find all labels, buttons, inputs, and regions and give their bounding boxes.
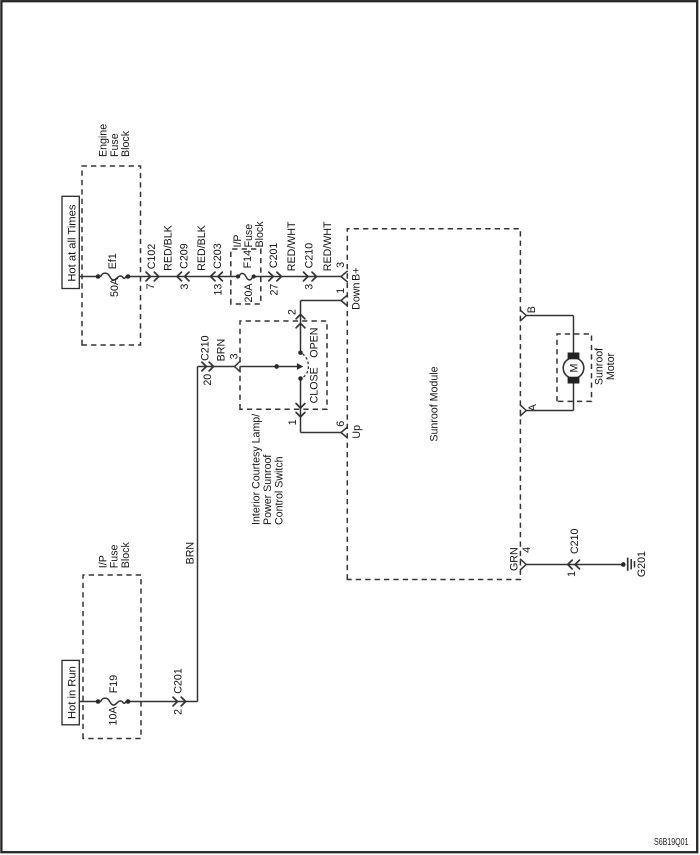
svg-text:RED/BLK: RED/BLK <box>163 225 175 271</box>
svg-text:1: 1 <box>287 419 299 425</box>
svg-text:S6B19Q01: S6B19Q01 <box>654 837 689 848</box>
svg-text:I/P: I/P <box>97 555 109 568</box>
svg-text:13: 13 <box>213 284 225 296</box>
svg-text:Block: Block <box>120 130 132 157</box>
svg-text:Motor: Motor <box>605 352 617 380</box>
svg-text:C203: C203 <box>212 243 224 269</box>
svg-text:OPEN: OPEN <box>309 328 321 358</box>
svg-text:RED/WHT: RED/WHT <box>322 221 334 271</box>
svg-text:RED/BLK: RED/BLK <box>196 225 208 271</box>
svg-text:50A: 50A <box>109 277 121 297</box>
svg-text:BRN: BRN <box>216 339 228 361</box>
svg-text:Block: Block <box>254 221 266 248</box>
svg-text:Hot at all Times: Hot at all Times <box>66 204 78 281</box>
svg-text:C210: C210 <box>569 528 581 554</box>
svg-text:Sunroof Module: Sunroof Module <box>428 366 440 441</box>
svg-text:3: 3 <box>228 353 240 359</box>
svg-text:Down: Down <box>351 283 363 310</box>
svg-text:1: 1 <box>335 288 347 294</box>
svg-text:10A: 10A <box>107 706 119 726</box>
svg-text:C209: C209 <box>179 243 191 269</box>
svg-text:Engine: Engine <box>98 124 110 157</box>
svg-text:Hot in Run: Hot in Run <box>66 666 78 719</box>
svg-text:4: 4 <box>521 547 533 553</box>
svg-text:C210: C210 <box>200 335 212 361</box>
svg-text:RED/WHT: RED/WHT <box>286 221 298 271</box>
svg-text:Interior Courtesy Lamp/: Interior Courtesy Lamp/ <box>250 414 262 525</box>
svg-text:B: B <box>526 306 538 313</box>
svg-text:Ef1: Ef1 <box>107 253 119 269</box>
svg-text:6: 6 <box>335 421 347 427</box>
svg-text:1: 1 <box>566 571 578 577</box>
svg-text:C201: C201 <box>268 243 280 269</box>
svg-text:3: 3 <box>179 284 191 290</box>
svg-text:BRN: BRN <box>185 542 197 564</box>
svg-text:M: M <box>569 364 581 373</box>
svg-text:2: 2 <box>173 709 185 715</box>
svg-text:3: 3 <box>335 262 347 268</box>
svg-text:C201: C201 <box>173 668 185 694</box>
svg-text:G201: G201 <box>636 551 648 577</box>
svg-text:B+: B+ <box>350 268 362 281</box>
svg-text:C102: C102 <box>146 244 158 270</box>
svg-text:20: 20 <box>202 374 214 386</box>
svg-text:2: 2 <box>287 309 299 315</box>
svg-text:20A: 20A <box>243 283 255 303</box>
svg-text:Power Sunroof: Power Sunroof <box>262 455 274 525</box>
svg-text:Block: Block <box>120 542 132 569</box>
svg-text:GRN: GRN <box>509 547 521 571</box>
svg-text:27: 27 <box>269 284 281 296</box>
svg-text:CLOSE: CLOSE <box>309 367 321 403</box>
svg-text:F14: F14 <box>242 250 254 268</box>
svg-text:Sunroof: Sunroof <box>594 348 606 385</box>
svg-text:Control Switch: Control Switch <box>273 456 285 525</box>
svg-text:C210: C210 <box>304 243 316 269</box>
svg-text:3: 3 <box>304 284 316 290</box>
svg-text:7: 7 <box>145 283 157 289</box>
svg-text:F19: F19 <box>108 675 120 693</box>
svg-text:Up: Up <box>351 425 363 439</box>
